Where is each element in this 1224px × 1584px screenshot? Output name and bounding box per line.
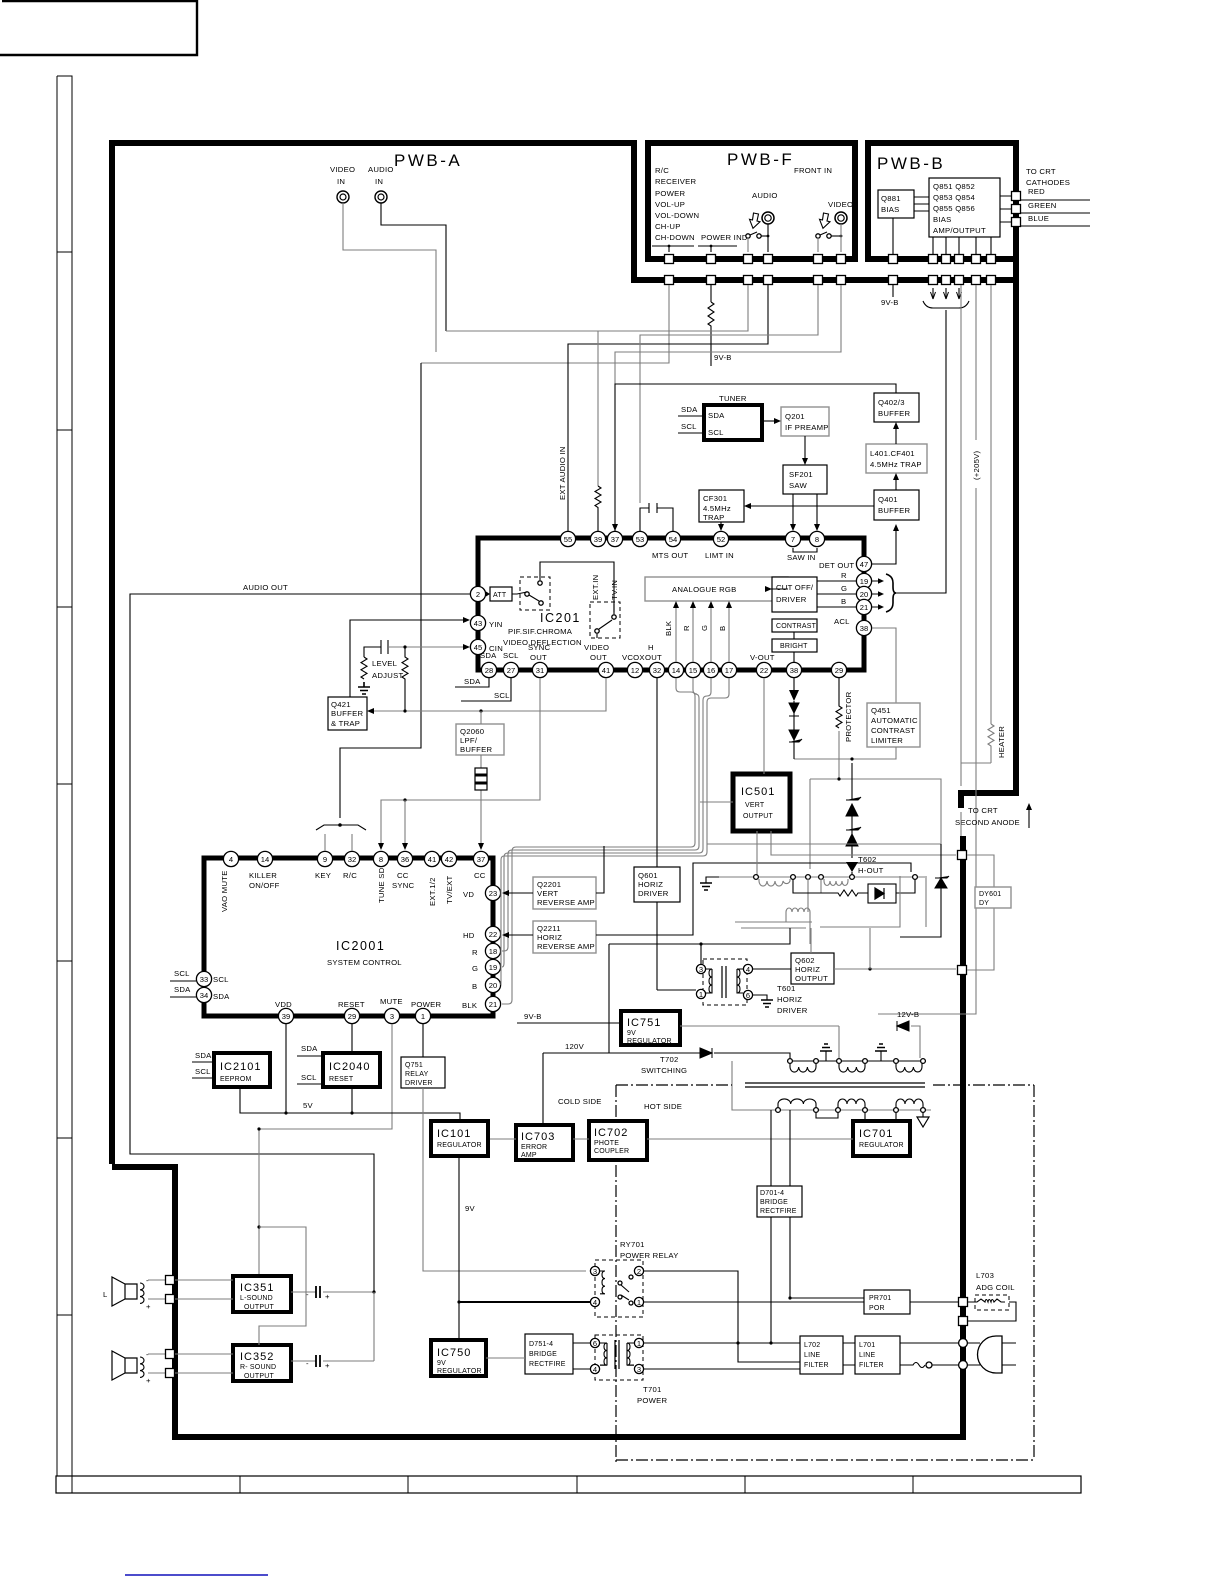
svg-text:TUNER: TUNER	[719, 394, 747, 403]
svg-text:OUT: OUT	[530, 653, 547, 662]
wires IC352 to speaker	[175, 1354, 233, 1373]
svg-text:22: 22	[489, 930, 497, 939]
transformer T702 switching	[641, 1055, 931, 1118]
svg-text:IF PREAMP: IF PREAMP	[785, 423, 829, 432]
wire IC702 to IC701	[647, 1138, 853, 1140]
audio in jack	[368, 165, 394, 203]
buffer Q402/3	[874, 393, 919, 422]
rectifier D751-4 bridge	[525, 1334, 573, 1374]
svg-text:4.5MHz: 4.5MHz	[703, 504, 731, 513]
svg-text:IC751: IC751	[627, 1017, 661, 1029]
filter SF201 SAW	[783, 465, 827, 494]
svg-text:SAW IN: SAW IN	[787, 553, 816, 562]
svg-text:55: 55	[564, 535, 572, 544]
svg-text:DRIVER: DRIVER	[777, 1006, 808, 1015]
ground T601 pin6	[753, 995, 773, 1007]
wire front-audio to pin 55	[568, 285, 768, 532]
labels EXT.IN TV.IN	[591, 575, 619, 600]
svg-text:T602: T602	[858, 855, 877, 864]
pin 19 IC2001 right	[485, 959, 500, 974]
wire YIN path from Q421	[350, 617, 470, 697]
regulator IC101	[431, 1121, 488, 1156]
wire Q2201 to pin 23	[502, 846, 604, 896]
wires RGB internal arrows from pins 14-17	[673, 601, 732, 662]
pin 47 IC201 right	[856, 556, 871, 571]
wire CF301 to pin 52	[718, 522, 724, 531]
speaker R	[112, 1350, 151, 1385]
svg-text:4: 4	[746, 965, 750, 974]
wire IC751 to 12V-B diode	[680, 1026, 920, 1061]
resistor protector pin29	[836, 678, 853, 779]
svg-text:RY701: RY701	[620, 1240, 645, 1249]
pin 20 IC2001 right	[485, 977, 500, 992]
svg-text:COLD SIDE: COLD SIDE	[558, 1097, 602, 1106]
svg-text:Q601: Q601	[638, 871, 658, 880]
ground T702 a	[820, 1044, 832, 1061]
filter L701 line	[855, 1336, 900, 1374]
wire bundle G	[502, 678, 711, 967]
svg-text:OUTPUT: OUTPUT	[743, 813, 774, 820]
svg-text:HORIZ: HORIZ	[638, 880, 663, 889]
relay RY701 power	[590, 1240, 678, 1317]
ceramic filter X2001	[475, 711, 487, 850]
svg-text:VIDEO: VIDEO	[828, 200, 853, 209]
svg-text:14: 14	[261, 855, 269, 864]
svg-text:CATHODES: CATHODES	[1026, 178, 1070, 187]
AC plug	[967, 1336, 1016, 1373]
fuse on bottom line	[900, 1362, 958, 1368]
svg-text:HD: HD	[463, 931, 475, 940]
svg-text:1: 1	[421, 1012, 425, 1021]
memory IC2101 EEPROM	[214, 1053, 270, 1087]
wire brace to PWB-B return	[896, 310, 946, 593]
wires Q851 block to CRT cathode connectors	[1000, 196, 1011, 222]
svg-text:21: 21	[489, 1000, 497, 1009]
svg-text:GREEN: GREEN	[1028, 201, 1057, 210]
wire T601 pin3 up	[699, 942, 702, 964]
svg-text:CC: CC	[474, 871, 486, 880]
wires speaker R	[148, 1354, 166, 1373]
svg-text:38: 38	[790, 666, 798, 675]
svg-text:L702: L702	[804, 1342, 820, 1349]
svg-text:36: 36	[401, 855, 409, 864]
svg-text:VERT: VERT	[537, 889, 558, 898]
resistor level adjust	[361, 657, 367, 679]
svg-text:ACL: ACL	[834, 617, 850, 626]
svg-text:28: 28	[485, 666, 493, 675]
svg-text:SYNC: SYNC	[392, 881, 415, 890]
wires +205V and heater columns	[878, 285, 981, 1014]
svg-text:37: 37	[477, 855, 485, 864]
wire bundle R	[502, 678, 699, 951]
wires cutoff to pins 19,20,21	[817, 581, 856, 607]
input select switch S1	[512, 562, 614, 612]
svg-text:HOT SIDE: HOT SIDE	[644, 1102, 682, 1111]
video in jack	[330, 165, 355, 203]
svg-text:IC2001: IC2001	[336, 939, 385, 953]
pin 39 IC201 top	[590, 531, 605, 546]
svg-text:VAO MUTE: VAO MUTE	[220, 870, 229, 912]
svg-text:Q421: Q421	[331, 700, 351, 709]
wire tuner to Q201	[762, 418, 781, 424]
svg-text:BUFFER: BUFFER	[460, 745, 492, 754]
svg-text:IC351: IC351	[240, 1282, 274, 1294]
pin 28 IC201 bottom	[481, 662, 496, 677]
svg-text:OUT: OUT	[590, 653, 607, 662]
svg-text:PHOTE: PHOTE	[594, 1140, 619, 1147]
svg-text:PIF.SIF.CHROMA: PIF.SIF.CHROMA	[508, 627, 573, 636]
output Q602 horiz	[791, 953, 834, 984]
svg-text:19: 19	[860, 577, 868, 586]
svg-text:Q853 Q854: Q853 Q854	[933, 193, 975, 202]
svg-text:19: 19	[489, 963, 497, 972]
wire 5V rail	[240, 1087, 460, 1121]
svg-text:SDA: SDA	[213, 992, 230, 1001]
pin 22 IC2001 right	[485, 926, 500, 941]
svg-text:BIAS: BIAS	[933, 215, 952, 224]
wire to pin 37	[615, 285, 841, 384]
coupler IC702 photo	[589, 1121, 647, 1160]
svg-text:6: 6	[746, 991, 750, 1000]
svg-text:43: 43	[474, 619, 482, 628]
transformer T601 horiz driver	[696, 959, 807, 1015]
svg-text:2: 2	[637, 1267, 641, 1276]
ground level adjust	[358, 659, 403, 694]
pin 39 IC2001 bottom	[278, 1008, 293, 1023]
T602 secondary	[735, 876, 926, 944]
svg-text:Q401: Q401	[878, 495, 898, 504]
svg-text:14: 14	[672, 666, 680, 675]
svg-text:D701-4: D701-4	[760, 1190, 784, 1197]
svg-text:BRIDGE: BRIDGE	[529, 1351, 557, 1358]
svg-text:G: G	[700, 625, 709, 631]
wire Q451 bottom to protector net	[794, 747, 896, 761]
wires Q602	[811, 928, 956, 971]
svg-text:SWITCHING: SWITCHING	[641, 1066, 687, 1075]
pin 33 IC2001 left	[196, 971, 211, 986]
pin 14 IC2001 top	[257, 851, 272, 866]
reset IC2040	[323, 1053, 380, 1087]
wire POWER pin1 to Q751	[422, 1024, 424, 1057]
svg-text:SCL: SCL	[195, 1067, 211, 1076]
pin 2 IC201 left	[470, 586, 485, 601]
svg-text:9V: 9V	[627, 1030, 636, 1037]
svg-text:IC702: IC702	[594, 1127, 628, 1139]
wires D751-4 to T701	[573, 1343, 590, 1369]
IC2001 pin labels	[213, 867, 486, 1010]
svg-text:BLUE: BLUE	[1028, 214, 1049, 223]
svg-text:+: +	[146, 1302, 151, 1311]
por PR701	[864, 1290, 910, 1314]
wire Q2211 to pin 22	[502, 863, 911, 938]
svg-text:VOL-UP: VOL-UP	[655, 200, 685, 209]
transformer T701 power	[590, 1335, 667, 1405]
pin 20 IC201 right	[856, 586, 871, 601]
pin 15 IC201 bottom	[685, 662, 700, 677]
wire RGB to cutoff	[765, 586, 788, 592]
pin 12 IC201 bottom	[627, 662, 642, 677]
svg-text:PWB-B: PWB-B	[877, 154, 945, 173]
IC2101 SDA/SCL stubs	[192, 1051, 214, 1078]
svg-text:G: G	[841, 584, 847, 593]
wires L702-L701	[843, 1343, 855, 1365]
svg-text:29: 29	[835, 666, 843, 675]
svg-text:IC703: IC703	[521, 1131, 555, 1143]
PWB-F board border	[648, 143, 855, 259]
long vertical tuner AV wire	[340, 363, 421, 818]
buffer Q401	[874, 490, 919, 520]
wire VDD pin39	[284, 1024, 287, 1115]
svg-text:ON/OFF: ON/OFF	[249, 881, 280, 890]
svg-text:IC2040: IC2040	[329, 1061, 370, 1073]
svg-text:TO CRT: TO CRT	[1026, 167, 1056, 176]
pin 14 IC201 bottom	[668, 662, 683, 677]
wire PR701 to border	[910, 1301, 958, 1303]
diode DY return	[900, 844, 949, 937]
svg-text:VCOX: VCOX	[622, 653, 645, 662]
to CRT cathodes labels	[1021, 167, 1090, 226]
svg-text:LINE: LINE	[859, 1352, 875, 1359]
svg-text:20: 20	[860, 590, 868, 599]
SCL SDA bus stubs left	[170, 969, 196, 997]
svg-text:IC201: IC201	[540, 611, 581, 625]
svg-text:1: 1	[637, 1298, 641, 1307]
svg-text:DET OUT: DET OUT	[819, 561, 854, 570]
svg-text:9: 9	[323, 855, 327, 864]
wire IC750 to D751-4	[486, 1357, 525, 1359]
remote sensor brace	[316, 823, 366, 851]
svg-text:DY601: DY601	[979, 891, 1001, 898]
svg-text:HORIZ: HORIZ	[537, 933, 562, 942]
svg-text:SCL: SCL	[503, 651, 519, 660]
isolation boundary dash-dot	[616, 1085, 1034, 1463]
wires Q851 block down	[933, 237, 991, 254]
svg-text:OUTPUT: OUTPUT	[244, 1373, 275, 1380]
connector squares PWB-F bottom row	[665, 255, 846, 264]
svg-text:Q451: Q451	[871, 706, 891, 715]
wire pin22 to IC501	[763, 678, 765, 774]
wire 120V rail	[609, 928, 790, 1053]
pin 43 IC201 left	[470, 615, 485, 630]
svg-text:22: 22	[760, 666, 768, 675]
pin 34 IC2001 left	[196, 987, 211, 1002]
svg-text:SDA: SDA	[480, 651, 497, 660]
svg-text:VDD: VDD	[275, 1000, 292, 1009]
pin 41 IC2001 top	[424, 851, 439, 866]
svg-text:52: 52	[717, 535, 725, 544]
svg-text:R: R	[841, 571, 847, 580]
svg-text:120V: 120V	[565, 1042, 585, 1051]
svg-text:OUTPUT: OUTPUT	[795, 974, 828, 983]
connector squares speaker L	[166, 1276, 175, 1285]
svg-text:RESET: RESET	[329, 1076, 354, 1083]
to CRT second anode	[955, 803, 1032, 836]
border pass-through circles	[959, 1339, 968, 1370]
svg-text:VERT: VERT	[745, 802, 765, 809]
pin 7 IC201 top	[785, 531, 800, 546]
svg-text:17: 17	[725, 666, 733, 675]
pin 21 IC201 right	[856, 599, 871, 614]
wire pin32 H out to Q601	[656, 678, 658, 990]
svg-text:CUT OFF/: CUT OFF/	[776, 583, 814, 592]
wires Q881 to Q851 block	[914, 197, 929, 211]
svg-text:37: 37	[611, 535, 619, 544]
svg-text:SDA: SDA	[301, 1044, 318, 1053]
wire to pin 39 with resistor	[446, 285, 748, 486]
op-amp IC501 vert output	[733, 774, 790, 831]
svg-text:23: 23	[489, 889, 497, 898]
svg-text:9V-B: 9V-B	[881, 298, 899, 307]
wires IC501 to yoke	[757, 831, 956, 875]
svg-text:VIDEO: VIDEO	[330, 165, 355, 174]
svg-text:PWB-F: PWB-F	[727, 150, 794, 169]
svg-text:47: 47	[860, 560, 868, 569]
svg-text:Q851 Q852: Q851 Q852	[933, 182, 975, 191]
wire pin47 det out to Q401	[872, 524, 899, 564]
svg-text:T701: T701	[643, 1385, 662, 1394]
svg-text:AUDIO OUT: AUDIO OUT	[243, 583, 288, 592]
svg-text:TRAP: TRAP	[703, 513, 725, 522]
svg-text:IC501: IC501	[741, 786, 775, 798]
connector squares PWB-B bottom row	[889, 255, 996, 264]
svg-text:SCL: SCL	[174, 969, 190, 978]
pin 23 IC2001 right	[485, 885, 500, 900]
wires D701-4	[769, 1110, 864, 1345]
svg-text:15: 15	[689, 666, 697, 675]
wire audio-in down	[381, 203, 446, 331]
svg-text:B: B	[472, 982, 477, 991]
video front jack	[828, 200, 853, 224]
svg-text:SCL: SCL	[708, 428, 724, 437]
svg-text:SYSTEM CONTROL: SYSTEM CONTROL	[327, 958, 402, 967]
wire 9V IC101 to IC750	[457, 1156, 475, 1340]
pin 21 IC2001 right	[485, 996, 500, 1011]
PWB-A board border	[112, 140, 966, 1440]
svg-text:FILTER: FILTER	[804, 1362, 829, 1369]
audio input switch	[746, 224, 770, 252]
pin 18 IC2001 right	[485, 943, 500, 958]
svg-text:CC: CC	[397, 871, 409, 880]
svg-text:RECTFIRE: RECTFIRE	[760, 1208, 797, 1215]
svg-text:R: R	[472, 948, 478, 957]
svg-text:39: 39	[594, 535, 602, 544]
audio switch arrow	[750, 213, 761, 228]
wire SDA stub pin28	[455, 677, 489, 687]
PWB interconnect bus	[631, 277, 1019, 283]
video input switch	[816, 224, 843, 252]
svg-text:POR: POR	[869, 1305, 885, 1312]
svg-text:MTS OUT: MTS OUT	[652, 551, 688, 560]
svg-text:8: 8	[815, 535, 819, 544]
svg-text:LEVEL: LEVEL	[372, 659, 398, 668]
svg-text:TUNE SD: TUNE SD	[377, 867, 386, 903]
9V-B feed label	[881, 285, 899, 307]
pin 32 IC2001 top	[344, 851, 359, 866]
coil L703 ADG	[967, 1271, 1016, 1321]
svg-text:41: 41	[428, 855, 436, 864]
svg-text:32: 32	[348, 855, 356, 864]
svg-text:G: G	[472, 964, 478, 973]
svg-text:TV/EXT: TV/EXT	[445, 876, 454, 904]
RGB return brace under bus	[923, 288, 969, 308]
svg-text:L703: L703	[976, 1271, 994, 1280]
svg-text:BRIDGE: BRIDGE	[760, 1199, 788, 1206]
svg-text:ADG COIL: ADG COIL	[976, 1283, 1015, 1292]
svg-text:PROTECTOR: PROTECTOR	[844, 691, 853, 742]
heater resistor run	[961, 285, 1006, 786]
ground T602	[700, 877, 719, 890]
svg-text:REVERSE AMP: REVERSE AMP	[537, 942, 595, 951]
wire Q751 to relay	[423, 1088, 586, 1271]
svg-text:SCL: SCL	[681, 422, 697, 431]
svg-text:RED: RED	[1028, 187, 1045, 196]
node junction sound input	[257, 1127, 260, 1130]
svg-text:31: 31	[536, 666, 544, 675]
svg-text:5V: 5V	[303, 1101, 314, 1110]
svg-text:DY: DY	[979, 900, 989, 907]
analogue RGB block	[645, 577, 788, 601]
svg-text:EXT.IN: EXT.IN	[591, 575, 600, 600]
svg-text:4.5MHz TRAP: 4.5MHz TRAP	[870, 460, 922, 469]
svg-text:IC352: IC352	[240, 1351, 274, 1363]
svg-text:Q602: Q602	[795, 956, 815, 965]
pin 52 IC201 top	[713, 531, 728, 546]
svg-text:BUFFER: BUFFER	[331, 709, 363, 718]
svg-text:IN: IN	[337, 177, 345, 186]
speaker L	[103, 1276, 151, 1311]
title block frame top-left	[0, 1, 197, 55]
R/C receiver labels	[655, 166, 748, 242]
svg-text:POWER: POWER	[411, 1000, 441, 1009]
connector squares speaker R	[166, 1350, 175, 1359]
capacitor CIN coupling	[364, 640, 470, 657]
svg-text:Q2201: Q2201	[537, 880, 561, 889]
svg-text:RELAY: RELAY	[405, 1071, 429, 1078]
svg-text:R- SOUND: R- SOUND	[240, 1364, 276, 1371]
svg-text:ATT: ATT	[493, 592, 507, 599]
damper diode and resistor inside T602	[793, 879, 915, 903]
svg-text:SCL: SCL	[213, 975, 229, 984]
svg-text:KILLER: KILLER	[249, 871, 277, 880]
svg-text:IC750: IC750	[437, 1347, 471, 1359]
svg-text:ADJUST: ADJUST	[372, 671, 403, 680]
svg-text:D751-4: D751-4	[529, 1341, 553, 1348]
svg-text:R/C: R/C	[343, 871, 357, 880]
svg-text:AUTOMATIC: AUTOMATIC	[871, 716, 918, 725]
pin 45 IC201 left	[470, 639, 485, 654]
amp IC352 R-sound	[233, 1345, 291, 1381]
svg-text:+: +	[146, 1376, 151, 1385]
pin 8 IC201 top	[809, 531, 824, 546]
svg-text:KEY: KEY	[315, 871, 331, 880]
svg-text:LIMITER: LIMITER	[871, 736, 903, 745]
svg-text:PWB-A: PWB-A	[394, 151, 462, 170]
svg-text:L401.CF401: L401.CF401	[870, 449, 915, 458]
pin 17 IC201 bottom	[721, 662, 736, 677]
svg-text:BRIGHT: BRIGHT	[780, 643, 808, 650]
svg-text:SDA: SDA	[681, 405, 698, 414]
amp IC703 error	[516, 1125, 573, 1160]
svg-text:9V-B: 9V-B	[714, 353, 732, 362]
svg-text:POWER: POWER	[655, 189, 685, 198]
pin 32 IC201 bottom	[649, 662, 664, 677]
svg-text:32: 32	[653, 666, 661, 675]
svg-text:CONTRAST: CONTRAST	[776, 623, 817, 630]
svg-text:IC701: IC701	[859, 1128, 893, 1140]
pin 19 IC201 right	[856, 573, 871, 588]
svg-text:34: 34	[200, 991, 208, 1000]
pin 55 IC201 top	[560, 531, 575, 546]
